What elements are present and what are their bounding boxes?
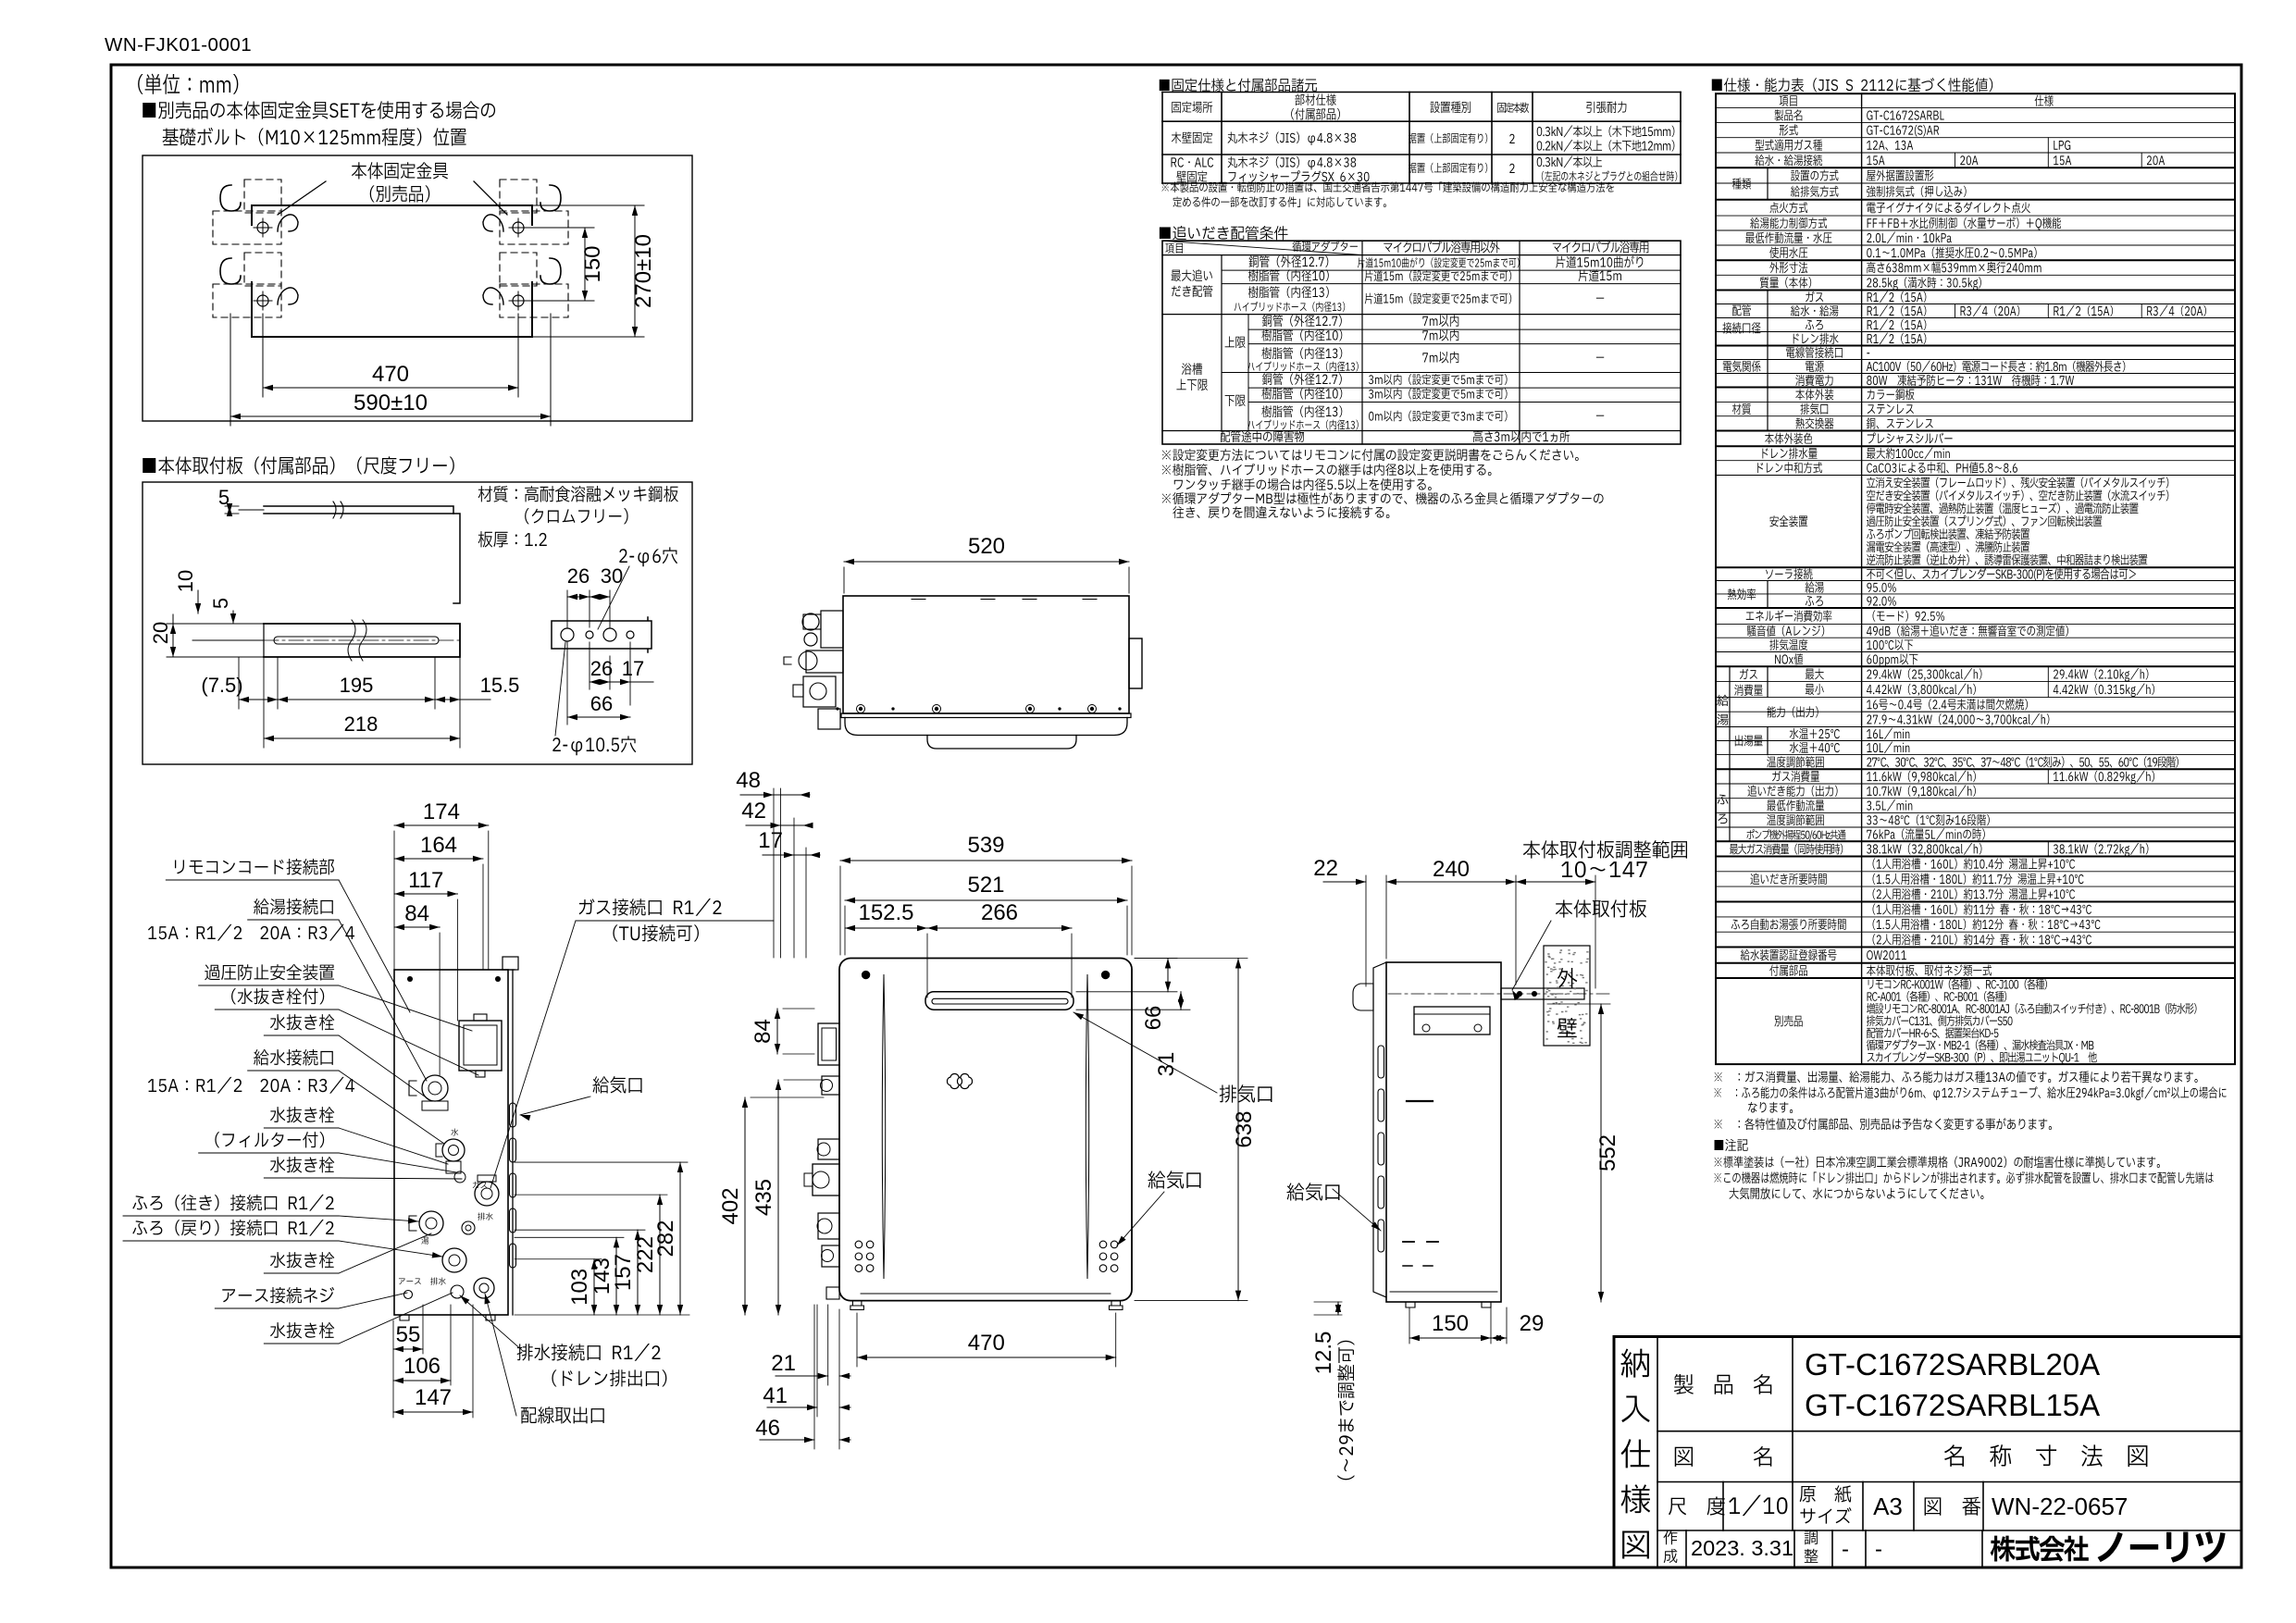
side view small bottom dashes bbox=[1403, 1265, 1412, 1267]
spec row 最大ガス消費量 bbox=[1730, 844, 1843, 855]
dim 66 right of slot bbox=[1167, 959, 1169, 992]
front vent holes bottom-right bbox=[1099, 1241, 1107, 1248]
spec row 給湯能力制御方式 bbox=[1750, 217, 1827, 229]
spec row 製品名 bbox=[1775, 109, 1803, 120]
rows 浴槽上下限 bbox=[1221, 315, 1222, 431]
left view remote cord box 過圧防止安全装置 bbox=[459, 1021, 502, 1071]
label 2-φ6穴 bbox=[619, 547, 677, 566]
svg-text:42: 42 bbox=[741, 799, 766, 824]
svg-text:590±10: 590±10 bbox=[354, 390, 428, 415]
svg-text:21: 21 bbox=[771, 1351, 796, 1376]
rows 最大追いだき配管 bbox=[1221, 255, 1222, 315]
callout 配線取出口 bbox=[521, 1406, 604, 1424]
callout 水抜き栓 2 bbox=[270, 1107, 334, 1122]
plate front view bbox=[264, 624, 460, 657]
NORITZ logo mark bbox=[947, 1073, 962, 1088]
top view screws bbox=[857, 705, 865, 713]
svg-text:GT-C1672SARBL15A: GT-C1672SARBL15A bbox=[1805, 1388, 2100, 1422]
left view 排水 fitting bbox=[462, 1221, 475, 1234]
heading 本体取付板調整範囲 bbox=[1523, 840, 1687, 859]
left view ふろ往き valve bbox=[419, 1211, 443, 1235]
left view top screws bbox=[407, 976, 413, 982]
heading 固定仕様と付属部品諸元 bbox=[1160, 78, 1317, 92]
spec row 項目/仕様 bbox=[1780, 95, 1797, 106]
wall labels 外 壁 bbox=[1558, 968, 1577, 988]
dims 48 42 17 top-left of front view bbox=[773, 788, 775, 958]
top view left fittings cluster bbox=[821, 611, 843, 648]
plate end detail with holes bbox=[552, 617, 652, 652]
svg-text:29: 29 bbox=[1520, 1311, 1545, 1336]
dim 521 bbox=[845, 899, 1127, 901]
left view ふろ戻り valve bbox=[442, 1248, 466, 1272]
spec row 能力(出力) bbox=[1767, 706, 1818, 717]
company logo 株式会社ノーリツ bbox=[1991, 1536, 2089, 1562]
spec row 騒音値 bbox=[1747, 625, 1824, 636]
spec table outer frame bbox=[1716, 93, 2235, 1064]
svg-text:55: 55 bbox=[396, 1322, 421, 1347]
side view handle marks bbox=[1407, 1100, 1433, 1102]
left view feet bbox=[400, 1315, 495, 1320]
label 2-φ10.5穴 bbox=[552, 736, 636, 755]
svg-text:15.5: 15.5 bbox=[480, 674, 520, 697]
title block 製品名 cell bbox=[1792, 1337, 1793, 1431]
dims 152.5 and 266 bbox=[845, 927, 927, 929]
svg-text:218: 218 bbox=[344, 712, 379, 736]
top view burner bump bbox=[927, 736, 1076, 750]
center line through slot bbox=[239, 639, 460, 641]
callout 給気口 side view bbox=[1286, 1183, 1339, 1200]
svg-text:10: 10 bbox=[174, 570, 197, 592]
spec row 温度調節範囲(給湯) bbox=[1767, 756, 1823, 767]
svg-text:103: 103 bbox=[567, 1269, 592, 1306]
spec row エネルギー消費効率 bbox=[1746, 610, 1832, 622]
callout 水抜き栓付 bbox=[231, 988, 324, 1004]
spec row 別売品 (8 lines) bbox=[1775, 1015, 1803, 1026]
svg-text:638: 638 bbox=[1232, 1111, 1257, 1148]
callout ふろ戻り接続口 bbox=[132, 1220, 333, 1236]
left view 給湯 valve bbox=[422, 1075, 448, 1101]
svg-text:152.5: 152.5 bbox=[858, 900, 913, 925]
spec rows ふろ自動お湯張り所要時間 bbox=[1731, 919, 1846, 930]
side view body outline bbox=[1386, 962, 1501, 1302]
front view corner screws bbox=[862, 971, 869, 978]
svg-text:5: 5 bbox=[218, 486, 230, 509]
plate side bend line bbox=[453, 514, 460, 603]
fixing bracket (dashed) at 560,246 bbox=[500, 180, 537, 213]
left view ガス接続口 valve bbox=[475, 1182, 499, 1206]
dims 402 435 left of front view bbox=[744, 1097, 746, 1315]
left view アース接続ネジ bbox=[404, 1291, 413, 1299]
spec rows 熱効率 bbox=[1767, 581, 1769, 609]
svg-text:520: 520 bbox=[968, 534, 1005, 559]
callout ふろ往き接続口 bbox=[132, 1195, 333, 1211]
side view feet bbox=[1406, 1302, 1491, 1307]
leader lines to fixing brackets bbox=[278, 181, 326, 215]
spec row 安全装置 (8 lines) bbox=[1769, 515, 1807, 527]
top view top-edge seams bbox=[912, 599, 925, 601]
side view top tab bbox=[1353, 984, 1373, 1010]
callout 水抜き栓 5 bbox=[270, 1322, 334, 1338]
top view body bbox=[843, 596, 1129, 713]
svg-text:WN-FJK01-0001: WN-FJK01-0001 bbox=[105, 34, 252, 56]
notes below spec table bbox=[1715, 1071, 2198, 1083]
svg-text:NORITZ: NORITZ bbox=[974, 1075, 1030, 1091]
svg-text:240: 240 bbox=[1433, 857, 1470, 882]
side view louvre slots bbox=[1378, 1046, 1384, 1078]
anchor bolt at 560,246 bbox=[513, 222, 524, 233]
dim 31 bbox=[1180, 992, 1182, 1010]
spec row 形式 bbox=[1780, 124, 1798, 135]
svg-text:470: 470 bbox=[968, 1331, 1005, 1356]
spec row ドレン排水量 bbox=[1762, 448, 1817, 459]
dims 55 106 147 below left view bbox=[392, 1320, 394, 1418]
front view body outline bbox=[839, 959, 1132, 1301]
dimension 150 (bolt row spacing) bbox=[584, 228, 586, 301]
svg-text:157: 157 bbox=[611, 1254, 636, 1291]
anchor bolt at 284,325 bbox=[257, 295, 268, 306]
svg-text:402: 402 bbox=[718, 1187, 743, 1224]
label 本体固定金具(別売品) bbox=[352, 162, 448, 179]
table 固定仕様 row2 RC・ALC壁固定 bbox=[1172, 157, 1214, 167]
spec row 型式適用ガス種 bbox=[1756, 140, 1822, 151]
wall hatch 外壁 bbox=[1544, 946, 1590, 1046]
svg-text:147: 147 bbox=[415, 1385, 452, 1410]
dim 5 (plate thickness) bbox=[229, 506, 230, 514]
front view bottom seam bbox=[861, 1293, 1111, 1295]
spec rows 種類 bbox=[1767, 167, 1769, 200]
svg-text:66: 66 bbox=[1141, 1006, 1166, 1031]
plate top view (edge-on) bbox=[264, 506, 453, 514]
spec section 給湯 bbox=[1729, 666, 1731, 769]
svg-text:48: 48 bbox=[736, 768, 761, 793]
mounting plate view box bbox=[143, 482, 692, 764]
spec rows 電気関係 bbox=[1767, 346, 1769, 388]
callout 水抜き栓 3 bbox=[270, 1157, 334, 1172]
svg-text:174: 174 bbox=[423, 799, 460, 824]
left view 排水接続口 bbox=[451, 1285, 464, 1298]
callout 水抜き栓 4 bbox=[270, 1252, 334, 1268]
callout 水抜き栓 1 bbox=[270, 1014, 334, 1030]
small marks 水/ガス on body bbox=[451, 1128, 458, 1135]
dim 470 below front view bbox=[857, 1357, 1116, 1358]
spec rows 材質 bbox=[1767, 388, 1769, 431]
title block 作成/調整 row bbox=[1685, 1530, 1687, 1567]
svg-text:270±10: 270±10 bbox=[631, 234, 656, 308]
front vent holes bottom-left bbox=[855, 1241, 863, 1248]
svg-text:435: 435 bbox=[751, 1179, 776, 1216]
spec rows 出湯量 bbox=[1767, 727, 1769, 755]
dim 539 above front view bbox=[840, 860, 1132, 861]
svg-text:A3: A3 bbox=[1873, 1493, 1903, 1520]
svg-text:84: 84 bbox=[751, 1019, 776, 1044]
svg-text:12.5: 12.5 bbox=[1311, 1332, 1336, 1375]
spec row 外形寸法 bbox=[1769, 262, 1807, 273]
spec row 点火方式 bbox=[1769, 202, 1807, 213]
dims 150 29 below side view bbox=[1409, 1307, 1410, 1344]
svg-text:46: 46 bbox=[755, 1416, 780, 1441]
callout ガス接続口 R1/2 (TU接続可) bbox=[579, 898, 722, 916]
svg-text:-: - bbox=[1875, 1537, 1882, 1562]
spec row 排気温度 bbox=[1769, 639, 1807, 650]
spec row 使用水圧 bbox=[1769, 247, 1807, 258]
top view exhaust duct (right) bbox=[1129, 638, 1142, 688]
title block 図名 cell bbox=[1792, 1431, 1793, 1482]
fixing bracket (dashed) at 284,246 bbox=[244, 180, 281, 213]
svg-text:106: 106 bbox=[403, 1354, 441, 1379]
title block outer frame bbox=[1614, 1337, 2241, 1568]
top view base pan bbox=[845, 718, 1127, 736]
spec rows 配管接続口径 bbox=[1767, 291, 1769, 346]
svg-text:20: 20 bbox=[149, 622, 172, 644]
title block 尺度/原紙/図番 row bbox=[1722, 1482, 1724, 1531]
svg-text:539: 539 bbox=[967, 833, 1004, 858]
table 追いだき grid outer bbox=[1162, 241, 1681, 444]
top view base flange bbox=[841, 713, 1131, 718]
svg-text:-: - bbox=[1842, 1537, 1849, 1562]
注記 heading bbox=[1715, 1139, 1748, 1151]
unit note (単位:mm) bbox=[138, 74, 238, 94]
spec row ソーラ接続 bbox=[1766, 568, 1812, 579]
callout リモコンコード接続部 bbox=[175, 859, 334, 875]
dims 21 41 46 bottom-left bbox=[838, 1309, 840, 1449]
svg-text:66: 66 bbox=[590, 692, 613, 715]
callout 給湯接続口 bbox=[254, 898, 333, 915]
svg-text:22: 22 bbox=[1313, 856, 1338, 881]
callout 15A R1/2 20A R3/4 (給水) bbox=[148, 1077, 354, 1094]
heading 仕様・能力表 bbox=[1712, 78, 1992, 92]
callout 給水接続口 bbox=[254, 1049, 333, 1066]
svg-text:2023. 3.31: 2023. 3.31 bbox=[1691, 1536, 1793, 1560]
svg-text:17: 17 bbox=[758, 828, 783, 853]
svg-text:17: 17 bbox=[622, 657, 644, 680]
spec row ドレン中和方式 bbox=[1757, 462, 1822, 473]
row 配管途中の障害物 bbox=[1221, 430, 1304, 442]
anchor bolt at 560,325 bbox=[513, 295, 524, 306]
dim 552 bbox=[1600, 1004, 1602, 1302]
front panel crease lines bbox=[882, 974, 886, 1279]
spec table label/value divider bbox=[1861, 93, 1863, 1064]
side view bottom pan seam bbox=[1390, 1291, 1497, 1293]
spec row 質量 bbox=[1760, 277, 1811, 288]
svg-text:26: 26 bbox=[567, 564, 590, 588]
label 排気口 with leader bbox=[1220, 1084, 1272, 1102]
svg-text:WN-22-0657: WN-22-0657 bbox=[1992, 1493, 2128, 1520]
dimension 590±10 bbox=[230, 415, 551, 417]
heading 追いだき配管条件 bbox=[1160, 226, 1288, 240]
dim 12.5 (~29まで調整可) bbox=[1337, 1302, 1339, 1315]
notes below 追いだき配管条件 bbox=[1162, 449, 1579, 461]
svg-text:150: 150 bbox=[1432, 1311, 1469, 1336]
svg-text:266: 266 bbox=[981, 900, 1018, 925]
svg-text:552: 552 bbox=[1595, 1134, 1620, 1171]
callout アース接続ネジ bbox=[222, 1287, 334, 1304]
label 本体取付板 with leader bbox=[1556, 899, 1646, 917]
table 固定仕様 header texts bbox=[1172, 101, 1212, 113]
material note 材質 bbox=[478, 486, 678, 502]
svg-text:282: 282 bbox=[653, 1220, 678, 1257]
side view bracket detail bbox=[1414, 1007, 1490, 1035]
dim 520 above top view bbox=[844, 561, 1129, 563]
section heading 本体取付板 bbox=[143, 456, 454, 474]
svg-text:(7.5): (7.5) bbox=[201, 674, 242, 697]
svg-text:30: 30 bbox=[601, 564, 623, 588]
side view front cap bbox=[1373, 962, 1386, 1297]
spec row 給水・給湯接続 bbox=[1755, 155, 1821, 166]
svg-text:150: 150 bbox=[580, 245, 605, 282]
callout フィルター付 bbox=[215, 1132, 324, 1147]
spec row 付属部品 bbox=[1769, 964, 1807, 975]
spec row 最低作動流量・水圧 bbox=[1745, 232, 1831, 243]
title block column 納入仕様図 bbox=[1657, 1337, 1658, 1568]
fixing bracket (dashed) at 560,325 bbox=[500, 253, 537, 286]
section heading 別売品の本体固定金具SET bbox=[143, 101, 495, 118]
spec table horizontal lines bbox=[1716, 107, 2235, 109]
callout 過圧防止安全装置 bbox=[205, 964, 334, 980]
left view 給水 valve + 水抜き栓(フィルター付) bbox=[442, 1139, 465, 1161]
anchor bolt at 284,246 bbox=[257, 222, 268, 233]
left view 給気口 louvres on plate bbox=[510, 1103, 516, 1127]
dims 103 143 157 222 282 right of left view bbox=[593, 1259, 595, 1315]
svg-text:470: 470 bbox=[372, 362, 409, 387]
front view left fittings bbox=[818, 1023, 839, 1065]
table 固定仕様 row1 木壁固定 bbox=[1172, 131, 1212, 143]
header diagonal cell 項目/循環アダプター bbox=[1162, 241, 1362, 254]
holes 2-f10.5 and 2-f6 bbox=[561, 628, 574, 641]
break marks on plate bbox=[348, 620, 366, 661]
svg-text:84: 84 bbox=[404, 901, 429, 926]
label 給気口 front with leader bbox=[1148, 1171, 1200, 1188]
dim 84 left of front view bbox=[776, 1009, 778, 1054]
fixing bracket (dashed) at 284,325 bbox=[244, 253, 281, 286]
dims 174 164 117 84 above left view bbox=[394, 824, 489, 826]
dimension 270±10 bbox=[634, 205, 636, 337]
left view 配線取出口 grommet bbox=[474, 1278, 494, 1298]
left view mounting plate edge bbox=[512, 970, 514, 1315]
dimension 470 (bolt column spacing) bbox=[263, 387, 518, 389]
left view body outline bbox=[394, 970, 508, 1315]
plate slot (long hole) bbox=[274, 637, 439, 644]
front view feet bbox=[852, 1301, 862, 1306]
spec row 本体外装色 bbox=[1765, 433, 1812, 444]
svg-text:117: 117 bbox=[408, 868, 443, 893]
bolt-position view box bbox=[143, 155, 692, 421]
front view exhaust slot bbox=[925, 992, 1074, 1010]
callout 給気口 left view bbox=[592, 1076, 641, 1093]
spec rows 追いだき所要時間 bbox=[1750, 873, 1826, 885]
side view mounting plate arm bbox=[1501, 988, 1584, 999]
spec row NOx値 bbox=[1775, 653, 1803, 664]
svg-text:195: 195 bbox=[340, 674, 374, 697]
svg-text:5: 5 bbox=[209, 598, 232, 609]
left view top tab bbox=[503, 957, 518, 970]
callout 排水接続口 R1/2 bbox=[517, 1344, 661, 1361]
svg-text:41: 41 bbox=[763, 1383, 788, 1408]
spec section ふろ bbox=[1729, 769, 1731, 841]
note below table 固定仕様 bbox=[1161, 181, 1614, 192]
svg-text:521: 521 bbox=[967, 873, 1004, 898]
table 固定仕様 grid bbox=[1162, 92, 1681, 93]
svg-text:164: 164 bbox=[420, 833, 457, 858]
dims 22 240 10~147 above side view bbox=[1365, 875, 1367, 986]
svg-text:GT-C1672SARBL20A: GT-C1672SARBL20A bbox=[1805, 1347, 2100, 1381]
callout 15A R1/2 20A R3/4 (給湯) bbox=[148, 924, 354, 941]
title block row lines bbox=[1657, 1431, 2241, 1432]
spec row 給水装置認証登録番号 bbox=[1741, 949, 1837, 960]
base rectangle (unit footprint) bbox=[252, 205, 532, 337]
dim 638 right of front view bbox=[1237, 959, 1239, 1301]
